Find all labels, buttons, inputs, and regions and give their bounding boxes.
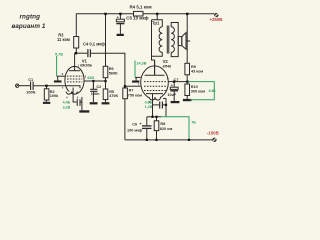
svg-text:C2: C2 xyxy=(96,85,101,89)
svg-text:rngtng: rngtng xyxy=(20,14,41,21)
anode xyxy=(69,70,80,72)
net highlight cathode green wire xyxy=(161,117,189,140)
resistor R6 xyxy=(103,66,108,81)
node dot C7 xyxy=(173,81,175,83)
node dot R8 top xyxy=(155,116,157,118)
resistor R7 xyxy=(123,88,128,99)
net highlight R10 green loop xyxy=(189,82,215,100)
cathode bar xyxy=(146,93,163,95)
resistor R5 xyxy=(103,81,108,102)
core xyxy=(166,26,168,54)
wire input xyxy=(19,85,30,87)
capacitor C2 xyxy=(90,81,97,102)
ground C2 xyxy=(90,102,98,104)
wire V2 cathode row xyxy=(147,116,161,118)
node dot V1 anode xyxy=(75,52,77,54)
wire input after C1 xyxy=(34,85,65,87)
resistor R9 xyxy=(185,14,190,82)
svg-text:1,2В: 1,2В xyxy=(145,105,153,109)
node dot green rail xyxy=(188,139,190,141)
wire V1 g2 row xyxy=(84,80,106,82)
wire C4 node line xyxy=(76,52,87,54)
ground V2 g3 xyxy=(132,81,139,83)
envelope xyxy=(65,66,84,94)
transformer Tr1 xyxy=(152,14,179,76)
capacitor C5 xyxy=(116,14,124,34)
svg-text:10uF: 10uF xyxy=(167,93,177,97)
svg-text:4,6Б: 4,6Б xyxy=(145,100,153,104)
ground C5 xyxy=(117,34,124,36)
svg-text:V1: V1 xyxy=(82,58,88,63)
cathode lead xyxy=(73,88,76,103)
svg-text:7Б: 7Б xyxy=(191,120,196,124)
node dot C6 xyxy=(146,139,148,141)
svg-text:300 ком: 300 ком xyxy=(191,90,206,94)
svg-text:100k: 100k xyxy=(50,94,59,98)
net highlight V1 green xyxy=(56,56,58,76)
wire C4 to V2 grid column xyxy=(91,53,125,140)
resistor R8 xyxy=(154,117,159,140)
input terminal xyxy=(16,84,19,87)
grid g3 dashed xyxy=(144,90,166,92)
svg-text:C4 0,1 мкф: C4 0,1 мкф xyxy=(83,42,105,47)
svg-text:100n: 100n xyxy=(91,92,100,96)
node dot rail R6 xyxy=(104,13,106,15)
wire secondary loop xyxy=(171,23,178,57)
svg-text:6Ж20Б: 6Ж20Б xyxy=(80,64,92,68)
grid input bar xyxy=(65,86,80,89)
node dot cathode row xyxy=(151,116,153,118)
svg-text:C1: C1 xyxy=(28,78,33,82)
wire top rail left xyxy=(76,14,133,53)
wire top rail right xyxy=(143,13,214,15)
node dot R7 grid xyxy=(124,85,126,87)
svg-text:-150В: -150В xyxy=(207,131,219,136)
svg-text:R7: R7 xyxy=(129,89,134,93)
svg-text:вариант 1: вариант 1 xyxy=(12,23,46,30)
V2 cathode small cap network xyxy=(153,98,167,116)
svg-text:Тр1: Тр1 xyxy=(152,21,160,26)
wire V2 grid xyxy=(125,85,140,87)
wire Tr1 primary bottom lead xyxy=(152,52,163,56)
svg-text:C7: C7 xyxy=(174,78,179,82)
ground C7 xyxy=(171,101,180,103)
resistor R4 xyxy=(134,11,144,16)
svg-text:R10: R10 xyxy=(191,85,198,89)
grid g3 dashed xyxy=(67,81,82,83)
node dot R6R5 junction xyxy=(104,80,106,82)
V1 g3 ground stub xyxy=(57,76,66,80)
node dot R2 xyxy=(45,85,47,87)
node dot C2 tap xyxy=(92,80,94,82)
terminal +250V xyxy=(214,13,218,17)
node dot R8 bottom xyxy=(155,139,157,141)
ground R5 xyxy=(102,102,110,104)
envelope xyxy=(141,66,169,99)
wire bottom rail xyxy=(125,139,213,141)
capacitor C7 xyxy=(170,82,178,101)
ground V1 cathode xyxy=(79,110,89,112)
svg-text:11 ком: 11 ком xyxy=(57,37,70,42)
svg-text:14,3В: 14,3В xyxy=(136,62,146,66)
node dot rail C5 xyxy=(119,13,121,15)
ground R2 xyxy=(43,102,50,104)
grid g2 dashed xyxy=(144,81,166,83)
wire V2 g2 row xyxy=(168,81,187,83)
ground V1 g3 xyxy=(54,80,62,82)
capacitor C1 xyxy=(31,82,33,91)
node dot cathode cap xyxy=(165,104,167,106)
capacitor C6 xyxy=(142,117,152,140)
svg-text:C6: C6 xyxy=(132,122,137,126)
svg-text:5,7В: 5,7В xyxy=(55,53,63,57)
wire R6 column from rail xyxy=(105,14,107,67)
grid g1 dashed xyxy=(67,75,82,77)
resistor R10 xyxy=(185,82,190,99)
capacitor C4 xyxy=(88,49,91,57)
resistor R3 xyxy=(74,37,79,49)
svg-text:750 ком: 750 ком xyxy=(128,93,143,97)
svg-text:470K: 470K xyxy=(109,94,118,98)
svg-text:64Б: 64Б xyxy=(209,89,216,93)
node dot R9R10 xyxy=(186,81,188,83)
svg-text:R6: R6 xyxy=(109,67,114,71)
ground R10 xyxy=(183,99,192,101)
svg-text:R9: R9 xyxy=(191,65,196,69)
svg-text:560K: 560K xyxy=(109,72,118,76)
svg-text:4,4Б: 4,4Б xyxy=(63,101,71,105)
capacitor V1 cathode xyxy=(77,97,82,110)
grid g1 dashed xyxy=(144,85,166,87)
svg-text:6П46: 6П46 xyxy=(163,64,172,68)
svg-text:3,2В: 3,2В xyxy=(63,106,71,110)
terminal -150V xyxy=(212,138,216,142)
svg-text:820 ом: 820 ом xyxy=(160,127,173,131)
V2 g3 ground stub xyxy=(135,77,141,80)
grid g2 dashed xyxy=(67,78,82,80)
net highlight V2 green xyxy=(134,61,136,78)
tube V1 xyxy=(65,53,84,102)
wire Tr1 primary top lead xyxy=(156,14,158,20)
anode xyxy=(145,74,165,76)
winding secondary xyxy=(171,27,174,53)
svg-text:R8: R8 xyxy=(160,122,165,126)
svg-text:R4 5,1 ком: R4 5,1 ком xyxy=(130,4,152,9)
svg-text:100N: 100N xyxy=(26,90,35,94)
svg-text:C5 10 мкф: C5 10 мкф xyxy=(126,15,148,20)
speaker xyxy=(178,33,190,50)
cathode lead xyxy=(152,94,154,117)
winding primary xyxy=(159,27,162,53)
svg-text:42В: 42В xyxy=(87,76,94,80)
node dot rail Tr1 xyxy=(156,13,158,15)
svg-text:43 ком: 43 ком xyxy=(191,70,203,74)
node dot rail R9 xyxy=(186,13,188,15)
svg-text:100 мкф: 100 мкф xyxy=(127,129,143,133)
svg-text:+250В: +250В xyxy=(209,17,222,22)
tube V2 xyxy=(141,60,169,117)
svg-text:V2: V2 xyxy=(163,59,169,64)
resistor R2 xyxy=(44,86,49,102)
